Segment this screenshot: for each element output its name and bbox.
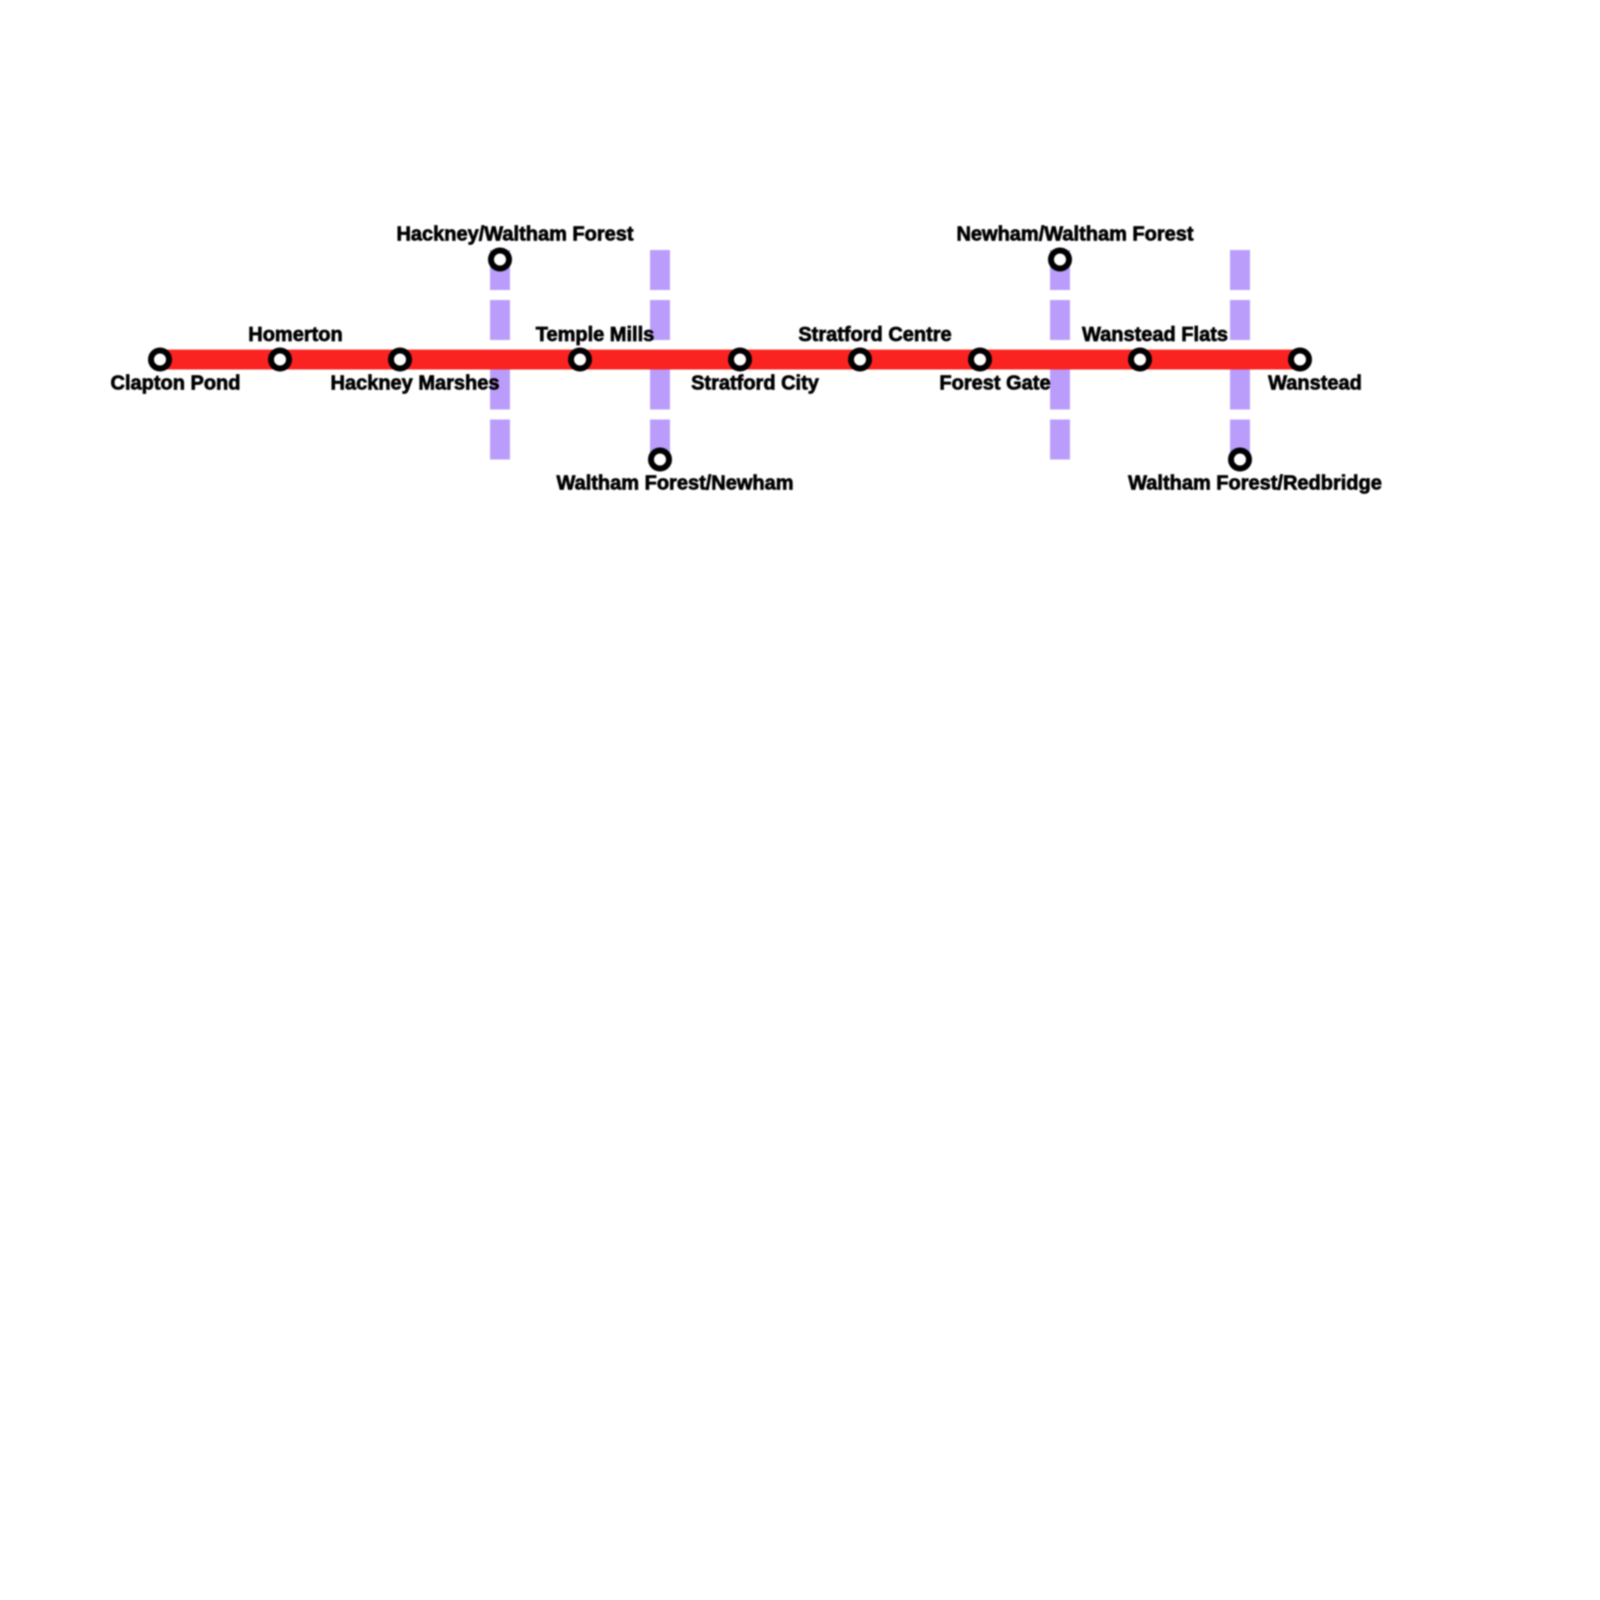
boundary line Hackney/Waltham Forest (dashed purple, x=500) (490, 250, 510, 460)
svg-text:Homerton: Homerton (248, 324, 342, 346)
station Stratford City (691, 351, 820, 395)
svg-text:Waltham Forest/Redbridge: Waltham Forest/Redbridge (1128, 473, 1382, 495)
interchange Waltham Forest/Newham (556, 451, 793, 495)
svg-text:Stratford City: Stratford City (691, 372, 820, 394)
station Forest Gate (939, 351, 1050, 395)
station Wanstead (1268, 351, 1362, 395)
station Temple Mills (536, 324, 655, 369)
svg-text:Hackney/Waltham Forest: Hackney/Waltham Forest (396, 224, 633, 246)
station Stratford Centre (798, 324, 951, 369)
svg-text:Hackney Marshes: Hackney Marshes (331, 372, 500, 394)
svg-text:Forest Gate: Forest Gate (939, 372, 1050, 394)
main route line (red) (160, 350, 1301, 370)
boundary line Waltham Forest/Redbridge (dashed purple, x=1240) (1230, 250, 1250, 460)
svg-text:Wanstead: Wanstead (1268, 372, 1362, 394)
station Hackney Marshes (331, 351, 500, 395)
svg-text:Newham/Waltham Forest: Newham/Waltham Forest (956, 224, 1193, 246)
interchange Hackney/Waltham Forest (396, 224, 633, 269)
interchange Waltham Forest/Redbridge (1128, 451, 1382, 495)
station Homerton (248, 324, 342, 369)
svg-text:Temple Mills: Temple Mills (536, 324, 655, 346)
svg-text:Stratford Centre: Stratford Centre (798, 324, 951, 346)
svg-text:Waltham Forest/Newham: Waltham Forest/Newham (556, 473, 793, 495)
boundary line Newham/Waltham Forest (dashed purple, x=1060) (1050, 250, 1070, 460)
interchange Newham/Waltham Forest (956, 224, 1193, 269)
station Wanstead Flats (1082, 324, 1228, 369)
station Clapton Pond (111, 351, 241, 395)
svg-text:Clapton Pond: Clapton Pond (111, 372, 241, 394)
boundary line Waltham Forest/Newham (dashed purple, x=660) (650, 250, 670, 460)
svg-text:Wanstead Flats: Wanstead Flats (1082, 324, 1228, 346)
